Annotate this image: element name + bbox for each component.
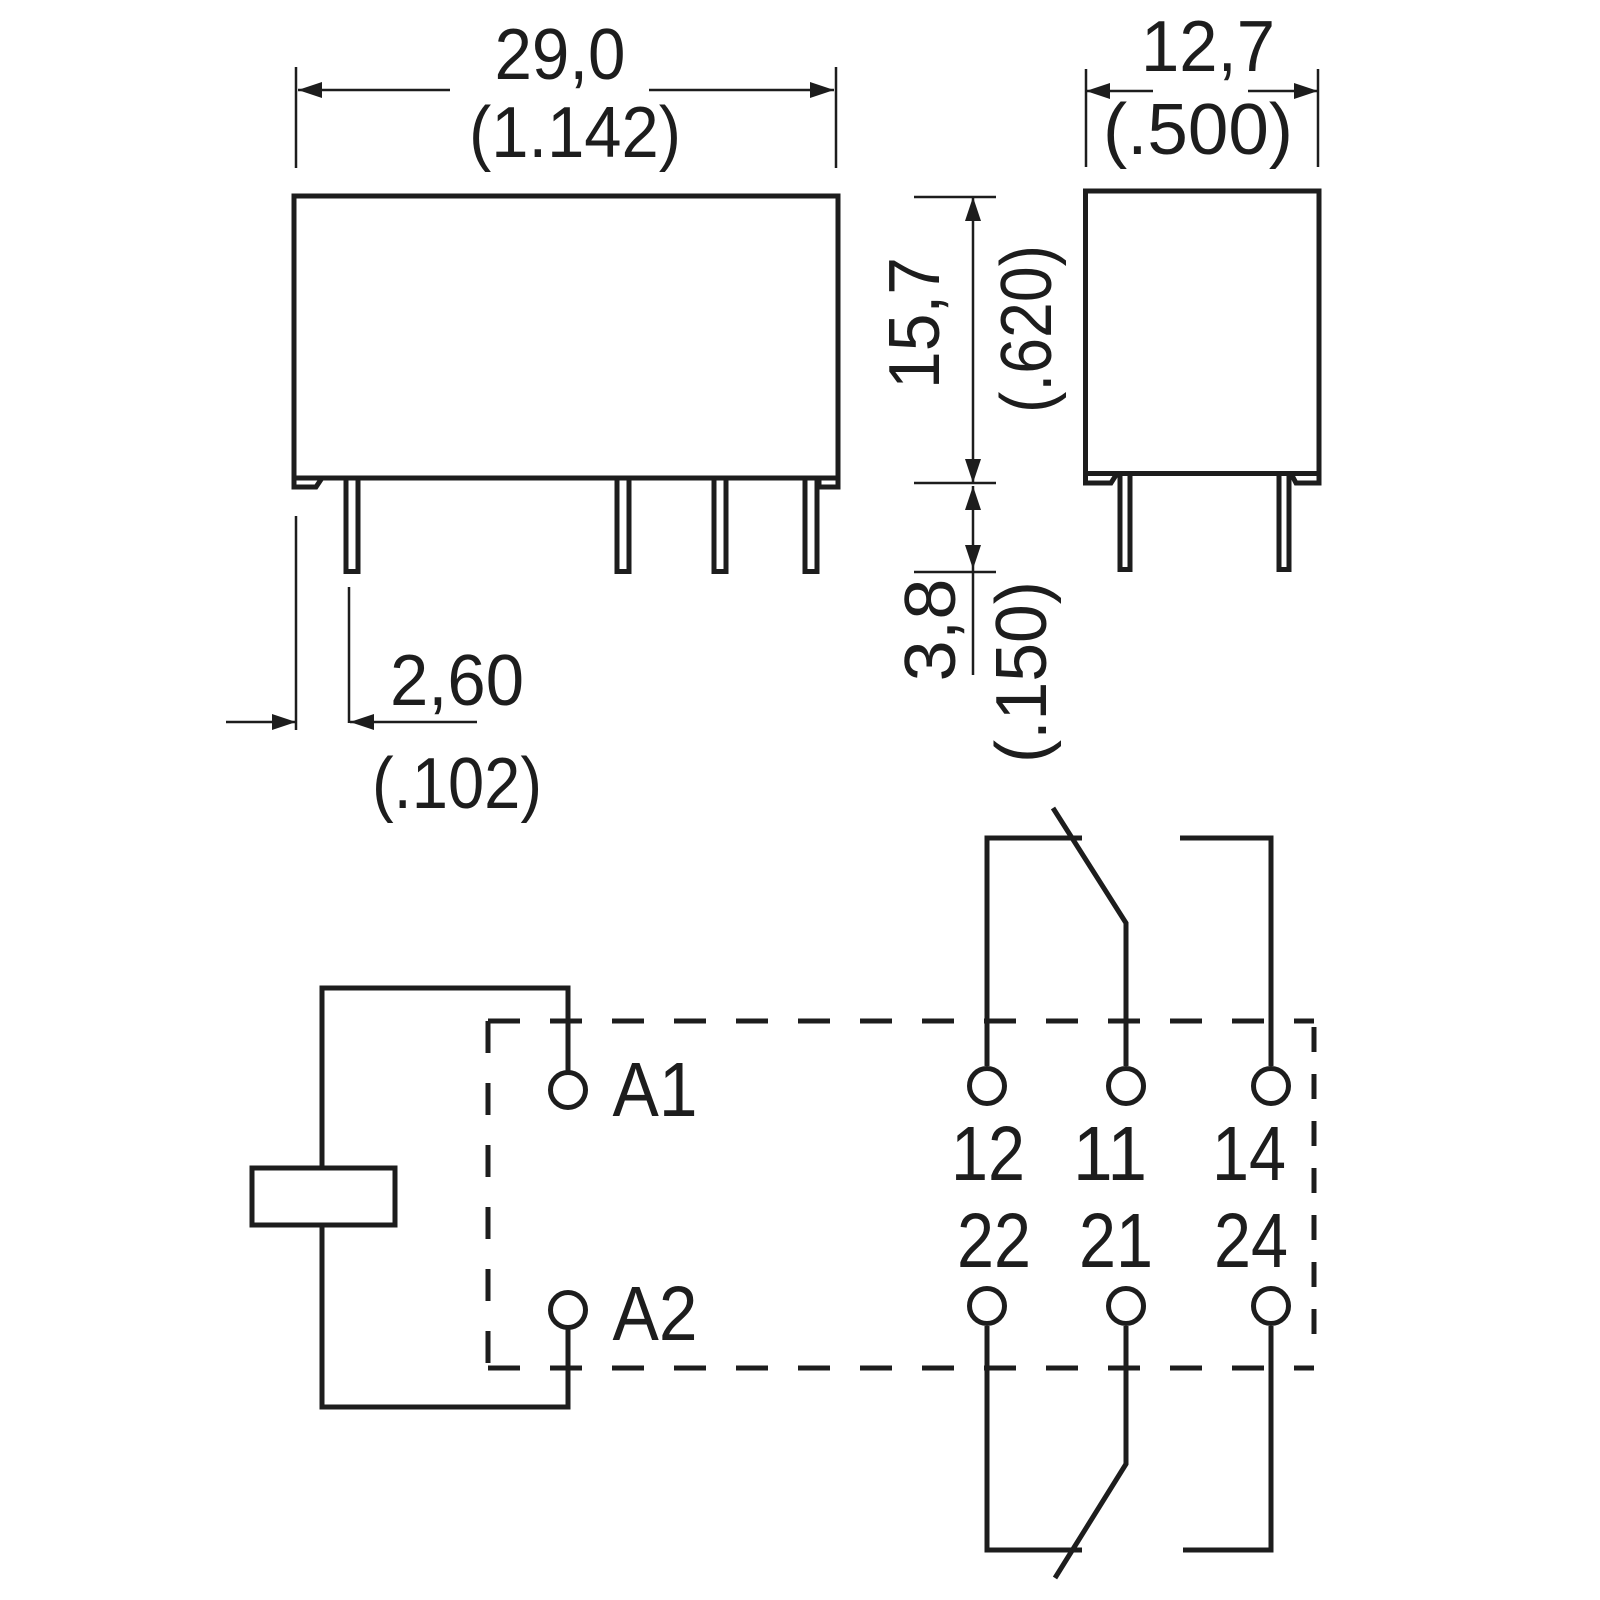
pin right side view: [1279, 474, 1289, 570]
terminal 11: [1109, 1069, 1144, 1104]
dimension line 2,60 left tail: [226, 721, 296, 724]
svg-text:29,0: 29,0: [495, 15, 626, 95]
arrow 2,60 pointing right: [272, 714, 296, 730]
dimension line 29,0 left segment: [298, 89, 450, 92]
terminal 24: [1254, 1289, 1289, 1324]
svg-text:A1: A1: [613, 1047, 698, 1133]
arrow 29,0 left: [298, 82, 322, 98]
arrow 12,7 right: [1294, 83, 1318, 99]
svg-text:24: 24: [1214, 1198, 1288, 1284]
svg-text:12,7: 12,7: [1141, 7, 1275, 87]
terminal A1: [551, 1073, 586, 1108]
arrow 15,7 down: [965, 459, 981, 483]
extension line pin1 left: [348, 587, 351, 723]
coil wire top: [322, 988, 568, 1168]
terminal 12: [970, 1069, 1005, 1104]
dashed relay outline right: [1312, 1027, 1317, 1355]
tick pin tip level: [914, 571, 996, 574]
svg-text:12: 12: [951, 1111, 1025, 1197]
dimension 3,8 (.150): [914, 486, 996, 675]
dimension line 15,7: [972, 197, 975, 483]
relay case front view: [294, 196, 838, 478]
coil wire bottom: [322, 1225, 568, 1407]
extension line case left top: [295, 67, 298, 168]
extension line side right: [1317, 69, 1320, 167]
terminal A2: [551, 1293, 586, 1328]
dimension 29,0 (1.142): [296, 67, 836, 168]
arrow 12,7 left: [1086, 83, 1110, 99]
coil: [252, 1168, 395, 1225]
side foot right: [1291, 471, 1319, 483]
wire contact 12: [987, 838, 1082, 1066]
dimension 15,7 (.620): [914, 197, 996, 483]
svg-text:15,7: 15,7: [875, 257, 955, 389]
terminal 22: [970, 1289, 1005, 1324]
svg-text:(1.142): (1.142): [469, 93, 681, 173]
extension line case left bottom: [295, 516, 298, 730]
arrow 15,7 up: [965, 197, 981, 221]
case foot right: [819, 476, 838, 487]
extension line side left: [1085, 69, 1088, 167]
dashed relay outline left: [486, 1021, 491, 1368]
svg-text:(.620): (.620): [987, 245, 1067, 413]
pin 1 front: [346, 478, 358, 572]
svg-text:(.150): (.150): [982, 581, 1062, 763]
dashed relay outline bottom: [488, 1366, 1314, 1371]
dimension 2,60 (.102): [226, 516, 477, 730]
wire contact 22: [987, 1326, 1082, 1550]
svg-text:14: 14: [1212, 1111, 1286, 1197]
svg-text:21: 21: [1079, 1198, 1153, 1284]
svg-text:22: 22: [957, 1198, 1031, 1284]
switch blade bottom: [1055, 1326, 1126, 1578]
pin 2 front: [617, 478, 629, 572]
arrow 3,8 up: [965, 486, 981, 510]
dimension line 2,60 right tail: [350, 721, 477, 724]
dashed relay outline top: [488, 1019, 1314, 1024]
svg-text:2,60: 2,60: [390, 641, 524, 721]
svg-text:(.102): (.102): [372, 744, 542, 824]
wire contact 14: [1180, 838, 1271, 1066]
wire contact 24: [1183, 1326, 1271, 1550]
dimension line 12,7 left segment: [1086, 90, 1153, 93]
terminal 14: [1254, 1069, 1289, 1104]
dimension line 3,8: [972, 486, 975, 675]
arrow 3,8 down: [965, 545, 981, 569]
svg-text:3,8: 3,8: [891, 579, 971, 682]
extension line case right top: [835, 67, 838, 168]
dimension line 29,0 right segment: [649, 89, 834, 92]
arrow 2,60 pointing left: [350, 714, 374, 730]
dimension 12,7 (.500): [1086, 69, 1318, 167]
switch blade top: [1053, 808, 1126, 1066]
case foot left: [294, 476, 322, 487]
pin 3 front: [714, 478, 726, 572]
terminal 21: [1109, 1289, 1144, 1324]
tick case bottom level: [914, 482, 996, 485]
svg-text:11: 11: [1073, 1111, 1147, 1197]
pin 4 front: [805, 478, 817, 572]
pin left side view: [1120, 474, 1130, 570]
relay case side view: [1086, 191, 1320, 474]
svg-text:(.500): (.500): [1103, 90, 1293, 170]
tick case top level: [914, 196, 996, 199]
arrow 29,0 right: [810, 82, 834, 98]
dimension line 12,7 right segment: [1248, 90, 1318, 93]
svg-text:A2: A2: [613, 1271, 698, 1357]
side foot left: [1086, 471, 1118, 483]
